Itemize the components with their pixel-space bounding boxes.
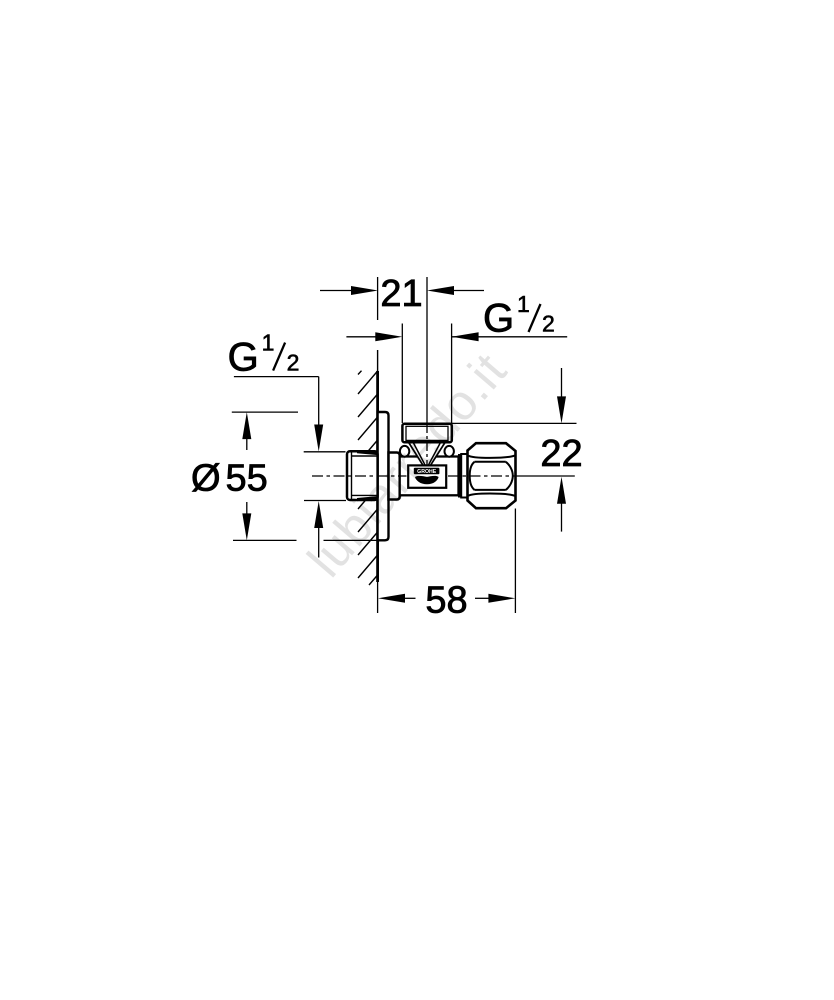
extension lines flange diameter (Ø55) bbox=[232, 411, 298, 413]
extension line inlet nut top (22) bbox=[448, 422, 577, 424]
vertical centerline of inlet bbox=[426, 277, 428, 424]
dimension G 1/2 right bbox=[346, 336, 376, 338]
text G 1/2 right bbox=[483, 291, 555, 341]
dimension 22 bbox=[561, 368, 563, 397]
text G 1/2 left bbox=[228, 329, 300, 379]
inlet cone fillet right bbox=[445, 446, 454, 457]
inlet nut bbox=[402, 424, 451, 442]
compression sleeve bbox=[461, 454, 467, 498]
thread runout chamfer bottom bbox=[357, 496, 378, 501]
wall flange (escutcheon) bbox=[378, 412, 389, 540]
svg-text:G: G bbox=[228, 335, 259, 379]
svg-text:2: 2 bbox=[542, 311, 555, 337]
svg-text:1: 1 bbox=[262, 329, 275, 355]
compression hex nut bbox=[468, 443, 516, 508]
svg-text:G: G bbox=[483, 297, 514, 341]
dimension Ø55 bbox=[246, 439, 248, 450]
GROHE logo plate bbox=[408, 465, 446, 487]
dimension 21 bbox=[320, 290, 484, 292]
collar ring at flange bbox=[389, 453, 400, 500]
inlet cone bbox=[408, 441, 446, 465]
svg-text:22: 22 bbox=[540, 433, 582, 475]
wall face line bbox=[377, 350, 379, 371]
extension line hex nut right bbox=[514, 509, 516, 614]
inlet cone fillet left bbox=[400, 446, 409, 457]
svg-text:55: 55 bbox=[226, 457, 268, 499]
extension lines inlet thread bbox=[401, 324, 403, 424]
GROHE wordmark bbox=[414, 468, 440, 475]
thread runout chamfer top bbox=[357, 450, 378, 455]
outlet end bar bbox=[458, 454, 461, 498]
dimension 58 bbox=[405, 597, 416, 599]
GROHE swoosh bbox=[415, 476, 439, 484]
extension line wall face top bbox=[377, 277, 379, 320]
svg-text:Ø: Ø bbox=[191, 457, 221, 499]
extension lines nipple thread (left G 1/2) bbox=[304, 451, 346, 453]
left threaded nipple bbox=[347, 451, 378, 500]
svg-text:21: 21 bbox=[380, 273, 422, 315]
wall hatching bbox=[358, 371, 378, 585]
svg-text:1: 1 bbox=[517, 291, 530, 317]
horizontal centerline bbox=[312, 475, 407, 477]
leader G 1/2 left bbox=[234, 376, 319, 378]
svg-text:58: 58 bbox=[425, 580, 467, 622]
extension line wall face bottom bbox=[377, 582, 379, 613]
valve body bbox=[400, 457, 459, 496]
svg-text:2: 2 bbox=[287, 349, 300, 375]
